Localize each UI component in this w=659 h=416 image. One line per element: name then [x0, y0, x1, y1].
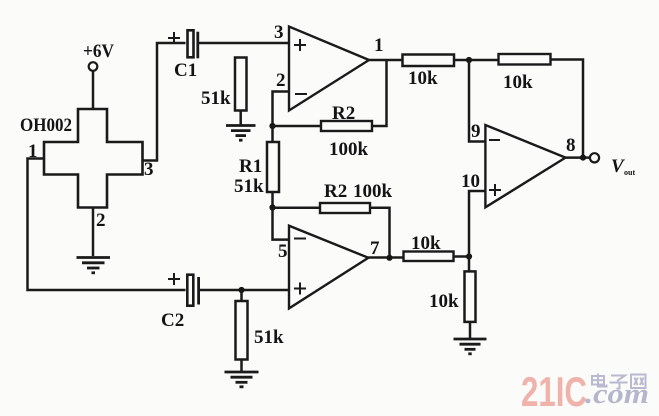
ground under 10k4 — [454, 339, 487, 354]
resistor 10k (U1 out to node B) — [403, 55, 455, 67]
resistor 10k (U3 feedback) — [499, 54, 551, 65]
U2 minus input symbol — [294, 238, 306, 240]
svg-text:7: 7 — [370, 238, 380, 259]
svg-text:21IC: 21IC — [521, 368, 587, 415]
svg-text:9: 9 — [471, 121, 481, 142]
wire node B down to U3 pin9 — [469, 60, 485, 142]
svg-text:2: 2 — [96, 210, 106, 231]
wire node C to R2b — [273, 207, 321, 210]
svg-text:R2: R2 — [324, 181, 347, 202]
resistor R2 100k (U1 feedback) — [321, 121, 372, 131]
svg-text:10k: 10k — [503, 72, 533, 93]
wire 10k3 to node E — [454, 255, 470, 258]
wire pin2 down to ground — [92, 208, 95, 257]
svg-text:10k: 10k — [411, 233, 441, 254]
wire R2 right to U1 output — [372, 60, 387, 126]
wire +6V to hall sensor top — [92, 71, 95, 109]
svg-text:51k: 51k — [234, 176, 264, 197]
svg-text:C1: C1 — [174, 60, 197, 81]
node A junction — [269, 123, 275, 129]
svg-text:C2: C2 — [161, 310, 184, 331]
wire pin1 left and down to C2 row — [28, 159, 186, 291]
svg-text:100k: 100k — [329, 139, 369, 160]
wire C1 to op-amp U1 pin3 — [199, 42, 289, 45]
output node junction — [580, 155, 586, 161]
wire node A to R2 feedback — [273, 125, 322, 128]
svg-text:10k: 10k — [429, 291, 459, 312]
wire R2b right down to U2 output node D — [370, 208, 390, 258]
label Vout — [611, 156, 635, 177]
wire node E down to 10k4 — [468, 257, 471, 272]
watermark CJK 电子网 — [592, 374, 646, 389]
svg-text:10: 10 — [461, 171, 480, 192]
svg-text:1: 1 — [374, 35, 384, 56]
U1 plus input symbol — [294, 39, 306, 51]
C1 plus sign — [168, 32, 180, 44]
wire C2 to U2 plus input — [200, 289, 289, 292]
svg-text:8: 8 — [566, 135, 576, 156]
ground under 51k top — [226, 126, 256, 141]
svg-text:3: 3 — [274, 22, 284, 43]
node F junction — [238, 287, 244, 293]
svg-text:51k: 51k — [201, 88, 231, 109]
node E junction — [466, 253, 472, 259]
svg-text:V: V — [611, 156, 625, 177]
node B junction — [466, 57, 472, 63]
resistor 51k (top, bias at U1 +input) — [235, 58, 247, 111]
svg-text:2: 2 — [276, 70, 286, 91]
wire 10k2 right and down to U3 output — [551, 60, 584, 158]
wire U1 pin2 to node A — [273, 92, 290, 127]
svg-text:51k: 51k — [254, 327, 284, 348]
node D junction — [386, 255, 392, 261]
resistor 10k (U2 out to node E) — [404, 252, 454, 262]
capacitor C1 — [188, 30, 198, 58]
ground under hall pin 2 — [77, 258, 111, 273]
wire node E up to U3 pin10 — [469, 191, 485, 257]
svg-text:R1: R1 — [239, 156, 262, 177]
wire U2 output to 10k3 — [368, 256, 403, 259]
wire node F down to 51k2 — [240, 290, 243, 301]
svg-text:OH002: OH002 — [20, 115, 72, 136]
wire R1 bottom to node C — [271, 192, 274, 208]
C2 plus sign — [168, 273, 180, 285]
wire 10k to node B to 10k2 — [454, 59, 499, 62]
svg-text:+6V: +6V — [83, 41, 114, 62]
resistor 51k (bottom bias) — [236, 301, 248, 360]
svg-text:5: 5 — [278, 241, 288, 262]
wire node A down to R1 top — [271, 126, 274, 142]
U1 minus input symbol — [295, 93, 307, 95]
hall sensor OH002 (cross shape) — [44, 109, 143, 208]
resistor R2 100k (U2 feedback) — [320, 203, 370, 213]
svg-text:10k: 10k — [408, 68, 438, 89]
resistor R1 51k — [267, 142, 279, 192]
resistor 10k (to ground) — [465, 271, 476, 322]
wire 51k bottom lead — [239, 111, 242, 125]
wire U1 output to 10k — [369, 59, 403, 62]
ground under 51k2 — [225, 372, 259, 387]
svg-text:3: 3 — [144, 159, 154, 180]
wire 10k4 bottom lead — [469, 322, 472, 338]
wire 51k2 bottom lead — [240, 360, 243, 372]
U3 plus input symbol — [489, 184, 501, 196]
svg-text:100k: 100k — [353, 181, 393, 202]
op-amp U2 — [289, 226, 368, 309]
U3 minus input symbol — [489, 139, 500, 141]
power terminal +6V — [83, 41, 114, 71]
node C junction — [269, 204, 275, 210]
wire pin3 right, up, to C1 — [143, 43, 186, 161]
op-amp U3 — [485, 125, 565, 207]
U2 plus input symbol — [294, 283, 306, 295]
svg-text:out: out — [624, 168, 635, 177]
wire node C down to U2 pin5 — [273, 208, 290, 240]
wire U3 output to terminal — [566, 156, 591, 159]
capacitor C2 — [187, 275, 198, 306]
svg-text:R2: R2 — [332, 103, 355, 124]
op-amp U1 — [289, 27, 369, 111]
output terminal circle — [590, 153, 599, 162]
